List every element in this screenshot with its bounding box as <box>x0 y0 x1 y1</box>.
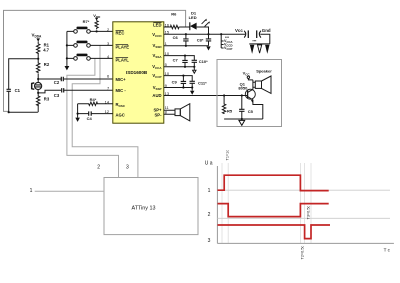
wire R6 to LED <box>180 26 190 28</box>
junction C11 bottom <box>191 86 193 88</box>
svg-text:6: 6 <box>107 74 110 79</box>
junction Vlabels <box>220 33 222 35</box>
net labels VCCA VCCD VCCP <box>221 34 232 51</box>
junction C5 <box>241 94 243 96</box>
svg-text:AGC: AGC <box>116 112 125 117</box>
ground amplifier open <box>239 120 245 125</box>
ground bar <box>249 43 269 45</box>
svg-text:ATTiny 13: ATTiny 13 <box>132 205 156 211</box>
svg-text:R3: R3 <box>44 96 50 101</box>
capacitor C11* <box>190 81 208 91</box>
svg-text:C2: C2 <box>54 80 60 85</box>
wire R4 C4 ground branch <box>77 104 79 118</box>
ground arrow right <box>265 45 269 54</box>
svg-text:4.7: 4.7 <box>43 48 49 53</box>
svg-text:2: 2 <box>97 165 100 171</box>
resistor R2 <box>37 59 50 73</box>
wire to ATTiny pin3 <box>72 45 138 177</box>
wire pin10b VCCP <box>164 76 192 82</box>
wire C3 to pin7 <box>64 89 113 91</box>
timing y axis <box>216 166 218 243</box>
junction C6 <box>185 33 187 35</box>
wire pin10 VSSA <box>164 56 195 61</box>
wire pin15 VCCD <box>164 33 245 35</box>
IC U1 ISD1600B <box>113 22 164 123</box>
resistor R3 <box>37 93 50 106</box>
svg-text:1: 1 <box>208 188 211 194</box>
svg-text:3: 3 <box>126 165 129 171</box>
svg-text:VCC: VCC <box>243 70 251 76</box>
ground C8 <box>206 46 210 50</box>
capacitor C9 <box>172 76 187 88</box>
wire pin5 VCCA <box>164 66 195 68</box>
svg-text:C4: C4 <box>87 116 93 121</box>
wire bottom rail <box>9 111 38 113</box>
ground open VCCA <box>193 67 196 73</box>
svg-text:MIC+: MIC+ <box>116 77 127 82</box>
amplifier box <box>217 60 282 127</box>
speaker symbol <box>253 76 271 93</box>
capacitor C8* <box>197 34 211 46</box>
wire C1 down <box>8 91 10 112</box>
svg-text:VCCP: VCCP <box>224 46 233 51</box>
svg-text:3: 3 <box>208 238 211 244</box>
svg-text:REC: REC <box>116 31 125 36</box>
svg-text:2: 2 <box>208 212 211 218</box>
ground arrow middle open <box>258 45 262 53</box>
capacitor C1 <box>7 88 21 93</box>
ground arrow left <box>250 45 254 54</box>
junction bus row2 <box>66 44 68 46</box>
resistor R1 <box>37 43 50 54</box>
wire R2 to mic node <box>37 73 39 79</box>
supply VDD <box>93 13 101 21</box>
svg-text:C5: C5 <box>248 109 254 114</box>
resistor R7* <box>83 19 99 30</box>
wire node to C1 branch <box>9 59 39 89</box>
waveform row2 <box>218 204 329 217</box>
pushbutton S3 <box>67 54 113 61</box>
svg-text:SP-: SP- <box>155 112 163 117</box>
junction VSSD C6 <box>185 45 187 47</box>
svg-text:1: 1 <box>30 188 33 194</box>
svg-text:Speaker: Speaker <box>256 69 272 74</box>
wire to C3 <box>38 90 61 93</box>
capacitor C4 <box>78 111 113 121</box>
wire to ATTiny pin2 <box>67 58 119 177</box>
timing baseline row1 <box>217 189 390 191</box>
svg-text:U a: U a <box>205 161 213 167</box>
svg-text:8050: 8050 <box>238 86 248 91</box>
MCU box ATTiny13 <box>104 178 198 235</box>
wire pin13 AUD <box>164 95 248 97</box>
svg-text:R2: R2 <box>44 62 50 67</box>
ground buttons <box>65 66 70 70</box>
pushbutton S2 <box>67 41 113 48</box>
supply Vcc Q1 <box>243 70 253 80</box>
junction rail C5 <box>241 118 243 120</box>
resistor R5 <box>222 96 232 115</box>
pin label PLAYL <box>116 57 130 62</box>
pin label LED <box>153 22 161 27</box>
svg-text:T c: T c <box>384 248 391 253</box>
wire Gnd to ground bar <box>260 34 270 44</box>
svg-text:R7*: R7* <box>83 19 90 24</box>
node junction <box>37 58 39 60</box>
timing baseline row2 <box>217 217 390 219</box>
svg-text:R5: R5 <box>227 109 233 114</box>
ground R4C4 <box>75 118 80 122</box>
svg-text:C10*: C10* <box>199 59 208 64</box>
node mic top <box>37 78 39 80</box>
timing ref verticals left <box>222 163 228 243</box>
junction C10 bottom <box>193 66 195 68</box>
wire to C2 <box>38 78 61 80</box>
svg-text:C8*: C8* <box>197 38 204 43</box>
svg-text:C11*: C11* <box>198 81 207 86</box>
pushbutton S1 <box>67 27 113 34</box>
connector Gnd <box>257 28 271 38</box>
capacitor C5 <box>239 96 254 120</box>
ground C11 <box>190 91 194 95</box>
svg-text:C3: C3 <box>54 93 60 98</box>
bottom rail amplifier <box>224 118 263 120</box>
svg-text:C9: C9 <box>172 79 178 84</box>
node mic bottom <box>37 92 39 94</box>
svg-text:PLAYL: PLAYL <box>116 57 130 62</box>
microphone <box>32 79 42 93</box>
timing ref verticals right <box>300 163 311 243</box>
svg-text:Gnd: Gnd <box>262 28 271 33</box>
junction bottom left <box>8 111 10 113</box>
svg-text:C6: C6 <box>173 35 179 40</box>
junction R7 row1 <box>96 30 98 32</box>
supply VDDA <box>32 33 43 44</box>
waveform row1 <box>218 175 329 190</box>
junction R5 <box>223 94 225 96</box>
push button bus <box>66 31 68 66</box>
wire LED to VCCD net <box>197 27 209 34</box>
svg-text:MIC -: MIC - <box>116 88 127 93</box>
svg-text:LED: LED <box>189 15 197 20</box>
wire R3 to bottom rail <box>37 105 39 113</box>
wire R1 to node <box>37 53 39 59</box>
svg-text:Vcc: Vcc <box>235 28 243 33</box>
timing x axis <box>217 242 394 244</box>
capacitor C2 <box>54 77 64 85</box>
svg-text:AUD: AUD <box>152 93 161 98</box>
speaker SP small <box>164 104 190 121</box>
svg-text:C1: C1 <box>15 88 21 93</box>
capacitor C3 <box>54 88 64 98</box>
svg-text:LED: LED <box>153 22 161 27</box>
svg-text:ISD1600B: ISD1600B <box>126 70 148 75</box>
svg-text:T2=0.5c: T2=0.5c <box>301 246 305 260</box>
junction C7 bottom <box>184 66 186 68</box>
junction bus row3 <box>66 57 68 59</box>
wire pin9 VSSP <box>164 87 192 89</box>
junction C4 <box>77 113 79 115</box>
pin label PLAYE <box>116 44 130 49</box>
junction C9 top <box>182 75 184 77</box>
wire C2 to pin6 <box>64 78 113 80</box>
svg-text:PLAYE: PLAYE <box>116 44 130 49</box>
capacitor C7 <box>173 56 188 67</box>
svg-text:R6: R6 <box>171 12 177 17</box>
module frame <box>4 10 186 111</box>
svg-text:***: *** <box>252 40 257 44</box>
junction C9 bottom <box>182 86 184 88</box>
svg-text:R4*: R4* <box>90 97 97 102</box>
transistor Q1 <box>238 80 262 119</box>
svg-text:C7: C7 <box>173 57 179 62</box>
resistor R4* <box>78 97 113 106</box>
capacitor C10* <box>192 59 209 67</box>
svg-text:VDDA: VDDA <box>32 33 43 39</box>
wire pin1 ATTiny <box>35 190 104 192</box>
connector Vcc <box>235 28 248 38</box>
pin label REC <box>116 31 125 36</box>
svg-text:T1=1c: T1=1c <box>226 150 230 161</box>
svg-text:T3=0.5c: T3=0.5c <box>307 206 311 220</box>
waveform row3 <box>218 225 331 239</box>
resistor R6 <box>164 12 180 29</box>
capacitor C6 <box>173 34 189 46</box>
junction C7 top <box>184 55 186 57</box>
diode D1 LED <box>189 10 210 30</box>
junction C8 <box>207 33 209 35</box>
wire pin1 VSSD <box>164 45 209 47</box>
